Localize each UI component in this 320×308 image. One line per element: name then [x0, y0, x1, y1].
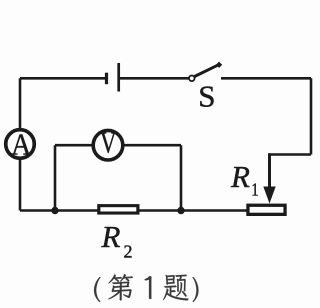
wire voltmeter branch top-left: [55, 144, 92, 147]
wire battery right to switch: [120, 77, 189, 80]
wire left vertical (top corner to ammeter): [19, 78, 22, 129]
caption close paren: [192, 277, 198, 302]
rheostat R1 wiper shaft: [268, 153, 271, 190]
wire top-left horizontal: [20, 77, 105, 80]
caption char Ti: [163, 275, 188, 301]
svg-text:2: 2: [124, 242, 133, 262]
svg-text:A: A: [11, 128, 32, 162]
switch S lever: [195, 65, 219, 77]
ammeter A circle: [6, 130, 35, 159]
junction dot left: [51, 207, 58, 214]
wire voltmeter branch top-right: [124, 144, 181, 147]
wire voltmeter branch left vertical: [54, 145, 57, 210]
caption digit 1: [144, 276, 151, 299]
wire right vertical: [310, 78, 313, 154]
wire switch to top-right corner: [221, 77, 311, 80]
svg-text:1: 1: [251, 179, 258, 200]
svg-text:R: R: [230, 159, 250, 194]
switch S lever tip: [218, 63, 221, 66]
voltmeter circle: [93, 130, 123, 160]
wire ammeter to bottom-left corner: [19, 160, 22, 211]
caption char Di: [108, 274, 133, 301]
rheostat R1 box inner: [250, 207, 284, 213]
wire bottom middle segment (R2 right to R1 left): [139, 209, 247, 212]
rheostat R1 wiper arrowhead: [263, 187, 275, 204]
svg-text:V: V: [100, 125, 117, 159]
battery short plate (negative): [105, 73, 108, 85]
svg-text:R: R: [101, 219, 121, 254]
battery long plate (positive): [117, 63, 120, 92]
switch S pivot circle: [189, 76, 195, 82]
rheostat R1 box outer: [246, 204, 286, 216]
resistor R2 box outer: [97, 204, 139, 215]
junction dot right: [177, 207, 184, 214]
wire bottom left segment: [20, 209, 98, 212]
resistor R2 box inner: [100, 207, 136, 211]
caption open paren: [94, 277, 101, 302]
svg-text:S: S: [198, 79, 215, 114]
wire right horizontal to wiper: [268, 153, 311, 156]
wire voltmeter branch right vertical: [180, 145, 183, 210]
